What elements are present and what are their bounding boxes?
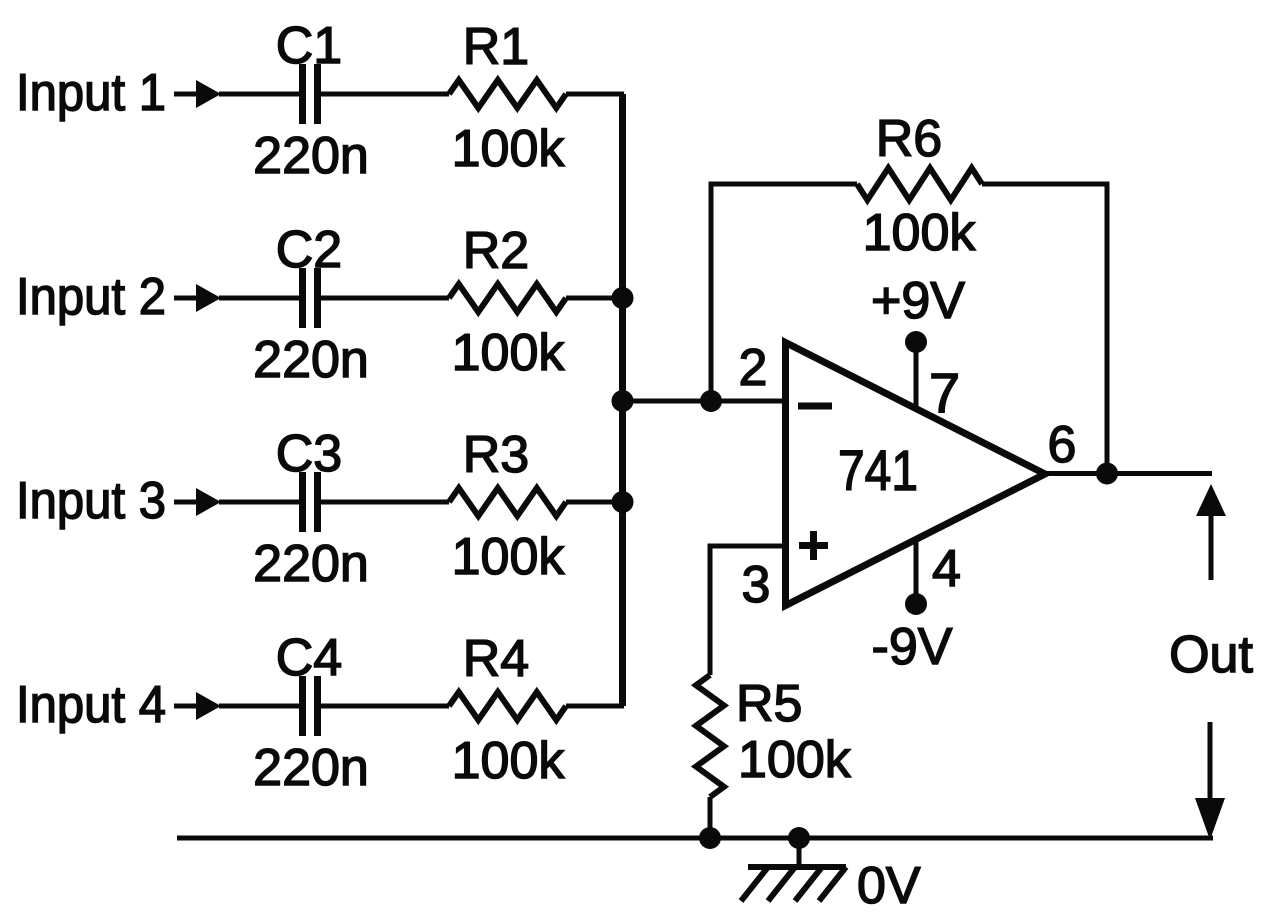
junction feedback tap xyxy=(700,390,722,412)
svg-text:100k: 100k xyxy=(738,731,852,789)
input 4 arrow xyxy=(196,692,221,720)
svg-text:R1: R1 xyxy=(463,18,529,76)
svg-text:100k: 100k xyxy=(863,204,977,262)
output down arrow xyxy=(1195,722,1225,840)
resistor R2 xyxy=(449,284,566,312)
junction ground/rail xyxy=(788,827,810,849)
svg-text:220n: 220n xyxy=(253,739,369,797)
svg-text:R2: R2 xyxy=(463,222,529,280)
svg-text:R4: R4 xyxy=(463,630,529,688)
wire bus to op-amp inverting input xyxy=(623,399,788,404)
wire summing bus vertical xyxy=(619,94,626,706)
svg-text:100k: 100k xyxy=(452,528,566,586)
-9V terminal dot xyxy=(905,593,927,615)
resistor R5 xyxy=(696,675,724,797)
wire R2 to bus xyxy=(566,296,624,301)
svg-text:7: 7 xyxy=(929,361,960,424)
wire R4 to bus xyxy=(566,704,624,709)
op-amp minus sign xyxy=(798,403,832,410)
wire R3 to bus xyxy=(566,500,624,505)
resistor R4 xyxy=(449,692,566,720)
wire arrow to C4 xyxy=(219,704,299,709)
wire C4 to R4 xyxy=(321,704,449,709)
svg-text:100k: 100k xyxy=(452,120,566,178)
wire feedback up and left segment xyxy=(711,184,857,401)
svg-text:-9V: -9V xyxy=(872,618,953,676)
svg-text:+9V: +9V xyxy=(871,272,965,330)
junction bus/R2 xyxy=(612,287,634,309)
wire non-inverting input down xyxy=(710,546,787,675)
svg-text:C2: C2 xyxy=(276,221,342,279)
wire 0V ground rail xyxy=(177,836,1213,841)
svg-text:Input 2: Input 2 xyxy=(16,268,166,326)
svg-text:C1: C1 xyxy=(276,17,342,75)
svg-text:R6: R6 xyxy=(876,110,942,168)
output up arrow xyxy=(1196,484,1226,580)
junction bus/pin2 wire xyxy=(612,390,634,412)
input 2 arrow xyxy=(196,284,221,312)
ground symbol stub xyxy=(797,838,802,867)
wire +9V to pin 7 xyxy=(914,342,919,409)
svg-text:220n: 220n xyxy=(253,535,369,593)
svg-text:R3: R3 xyxy=(463,426,529,484)
wire input1 tail xyxy=(174,92,198,97)
op-amp plus sign xyxy=(799,531,828,560)
wire input3 tail xyxy=(174,500,198,505)
+9V terminal dot xyxy=(905,331,927,353)
capacitor C2 xyxy=(303,268,318,328)
input 3 arrow xyxy=(196,488,221,516)
svg-text:220n: 220n xyxy=(253,331,369,389)
wire arrow to C1 xyxy=(219,92,299,97)
op-amp U1 741 triangle xyxy=(786,343,1046,606)
junction R5/rail xyxy=(699,827,721,849)
wire C1 to R1 xyxy=(321,92,449,97)
svg-text:C4: C4 xyxy=(276,629,342,687)
svg-text:100k: 100k xyxy=(452,732,566,790)
svg-text:Input 1: Input 1 xyxy=(16,64,166,122)
svg-text:R5: R5 xyxy=(736,675,802,733)
wire pin 4 to -9V xyxy=(914,539,919,604)
wire output from op-amp xyxy=(1045,471,1212,476)
ground symbol hatches xyxy=(741,867,846,901)
junction output/feedback xyxy=(1096,463,1118,485)
input 1 arrow xyxy=(196,80,221,108)
wire input4 tail xyxy=(174,704,198,709)
svg-text:741: 741 xyxy=(838,439,918,503)
resistor R6 xyxy=(857,168,982,200)
wire R1 to bus xyxy=(566,92,624,97)
capacitor C4 xyxy=(303,676,318,736)
wire feedback right segment down to output xyxy=(982,184,1107,473)
resistor R1 xyxy=(449,80,566,108)
wire R5 to ground rail xyxy=(708,797,713,838)
svg-text:Input 4: Input 4 xyxy=(16,676,166,734)
svg-text:Input 3: Input 3 xyxy=(16,472,166,530)
svg-text:C3: C3 xyxy=(276,425,342,483)
svg-text:4: 4 xyxy=(932,540,961,598)
ground symbol bar xyxy=(748,864,846,870)
wire input2 tail xyxy=(174,296,198,301)
svg-text:2: 2 xyxy=(739,339,768,397)
wire C2 to R2 xyxy=(321,296,449,301)
capacitor C3 xyxy=(303,472,318,532)
svg-text:220n: 220n xyxy=(253,127,369,185)
svg-text:6: 6 xyxy=(1048,416,1077,474)
svg-text:100k: 100k xyxy=(452,324,566,382)
junction bus/R3 xyxy=(612,491,634,513)
capacitor C1 xyxy=(303,64,318,124)
svg-text:Out: Out xyxy=(1169,626,1253,684)
resistor R3 xyxy=(449,488,566,516)
wire arrow to C2 xyxy=(219,296,299,301)
svg-text:3: 3 xyxy=(742,556,771,614)
svg-text:0V: 0V xyxy=(857,857,921,915)
wire arrow to C3 xyxy=(219,500,299,505)
wire C3 to R3 xyxy=(321,500,449,505)
